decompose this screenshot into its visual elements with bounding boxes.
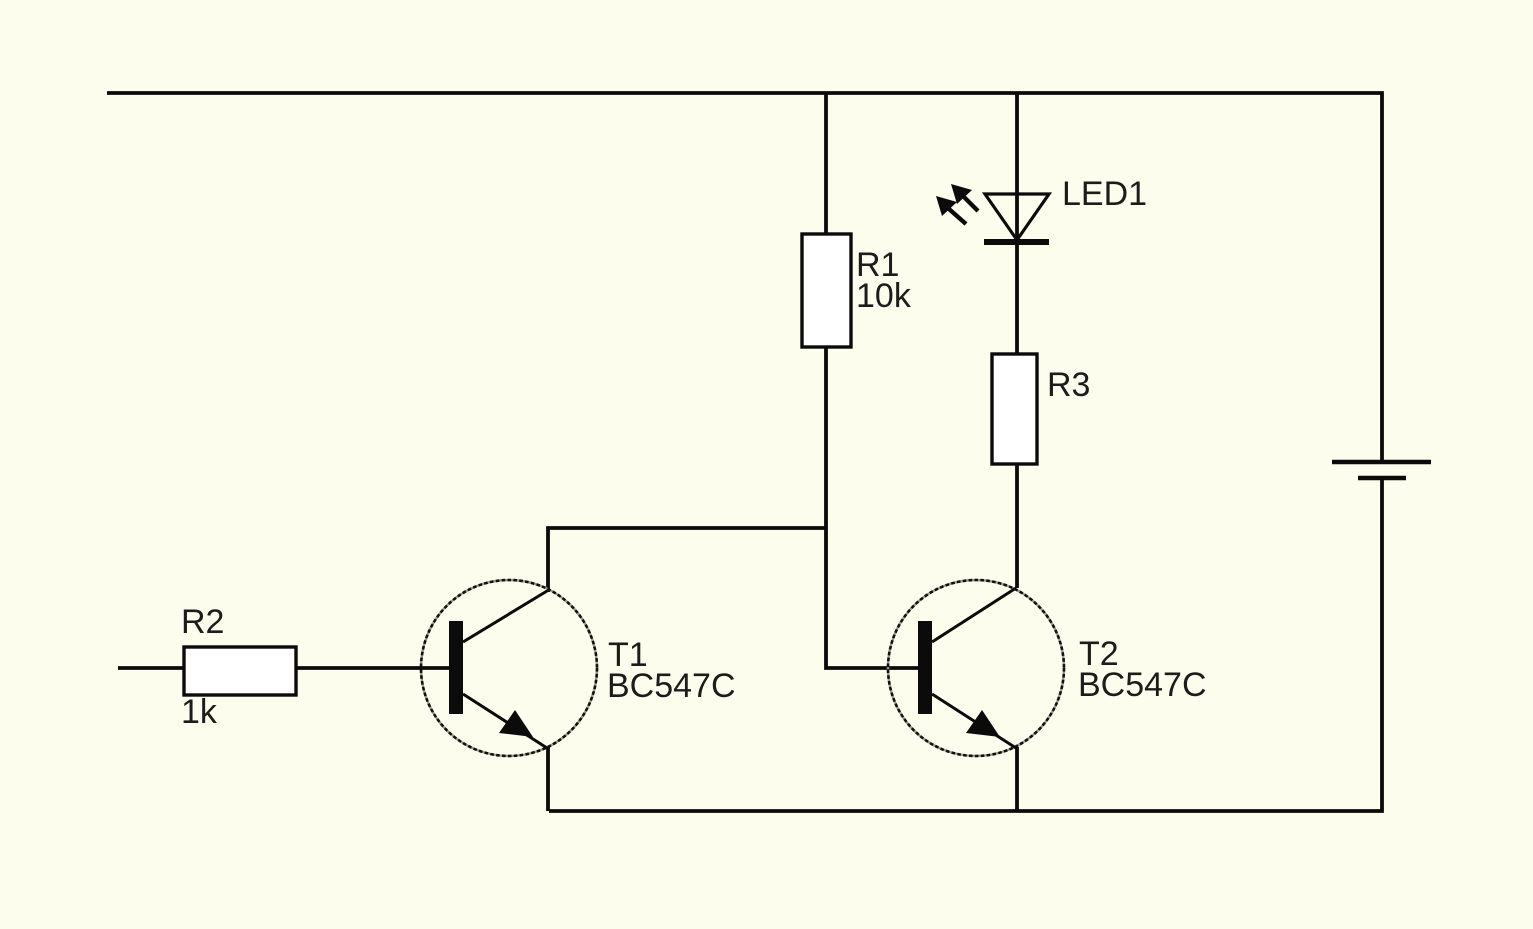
svg-text:BC547C: BC547C (607, 667, 736, 705)
transistor T2 emitter stroke (932, 694, 1016, 748)
wire: top rail down to R1 (824, 93, 828, 234)
wire: LED1 cathode to R3 (1015, 242, 1019, 354)
svg-text:1k: 1k (181, 693, 218, 731)
battery B1 negative plate (1358, 476, 1406, 480)
LED1 emission arrow 2 (936, 196, 966, 224)
wire: battery - down to bottom rail, bottom ground rail to T1 emitter (549, 478, 1382, 811)
resistor R3 body (992, 354, 1037, 464)
LED1 emission arrow 1 (951, 184, 978, 211)
transistor T1 base bar (449, 621, 463, 714)
wire: R3 bottom to T2 collector (1015, 464, 1019, 588)
transistor T2 base bar (918, 621, 932, 714)
wire: top rail down to LED1 anode (1015, 93, 1019, 242)
wire: top supply rail with right-side drop to battery + (107, 93, 1382, 462)
svg-text:BC547C: BC547C (1078, 666, 1207, 704)
battery B1 positive plate (1332, 460, 1431, 464)
LED1 triangle (anode) (985, 194, 1049, 240)
svg-text:R2: R2 (181, 603, 224, 641)
transistor T2 collector stroke (932, 588, 1016, 642)
transistor T1 collector stroke (463, 591, 547, 642)
wire: R1 bottom down then right to T2 base (826, 347, 918, 668)
transistor T1 emitter arrowhead (499, 710, 533, 737)
transistor T1 emitter stroke (463, 694, 547, 748)
svg-text:R3: R3 (1047, 366, 1090, 404)
wire: T1 collector up and right to R1/T2-base node (548, 528, 826, 592)
resistor R1 body (802, 234, 851, 347)
transistor T2 emitter arrowhead (966, 710, 1000, 737)
svg-text:LED1: LED1 (1062, 175, 1147, 213)
resistor R2 body (184, 647, 296, 695)
LED1 cathode bar (984, 239, 1049, 245)
transistor T1 circle (421, 580, 597, 756)
wire: R2 to T1 base (296, 666, 449, 670)
wire: T2 emitter down to bottom rail (1015, 747, 1019, 811)
wire: T1 emitter down to bottom rail (546, 747, 550, 811)
wire: input lead into R2 (118, 666, 184, 670)
transistor T2 circle (888, 580, 1064, 756)
svg-text:10k: 10k (856, 277, 912, 315)
